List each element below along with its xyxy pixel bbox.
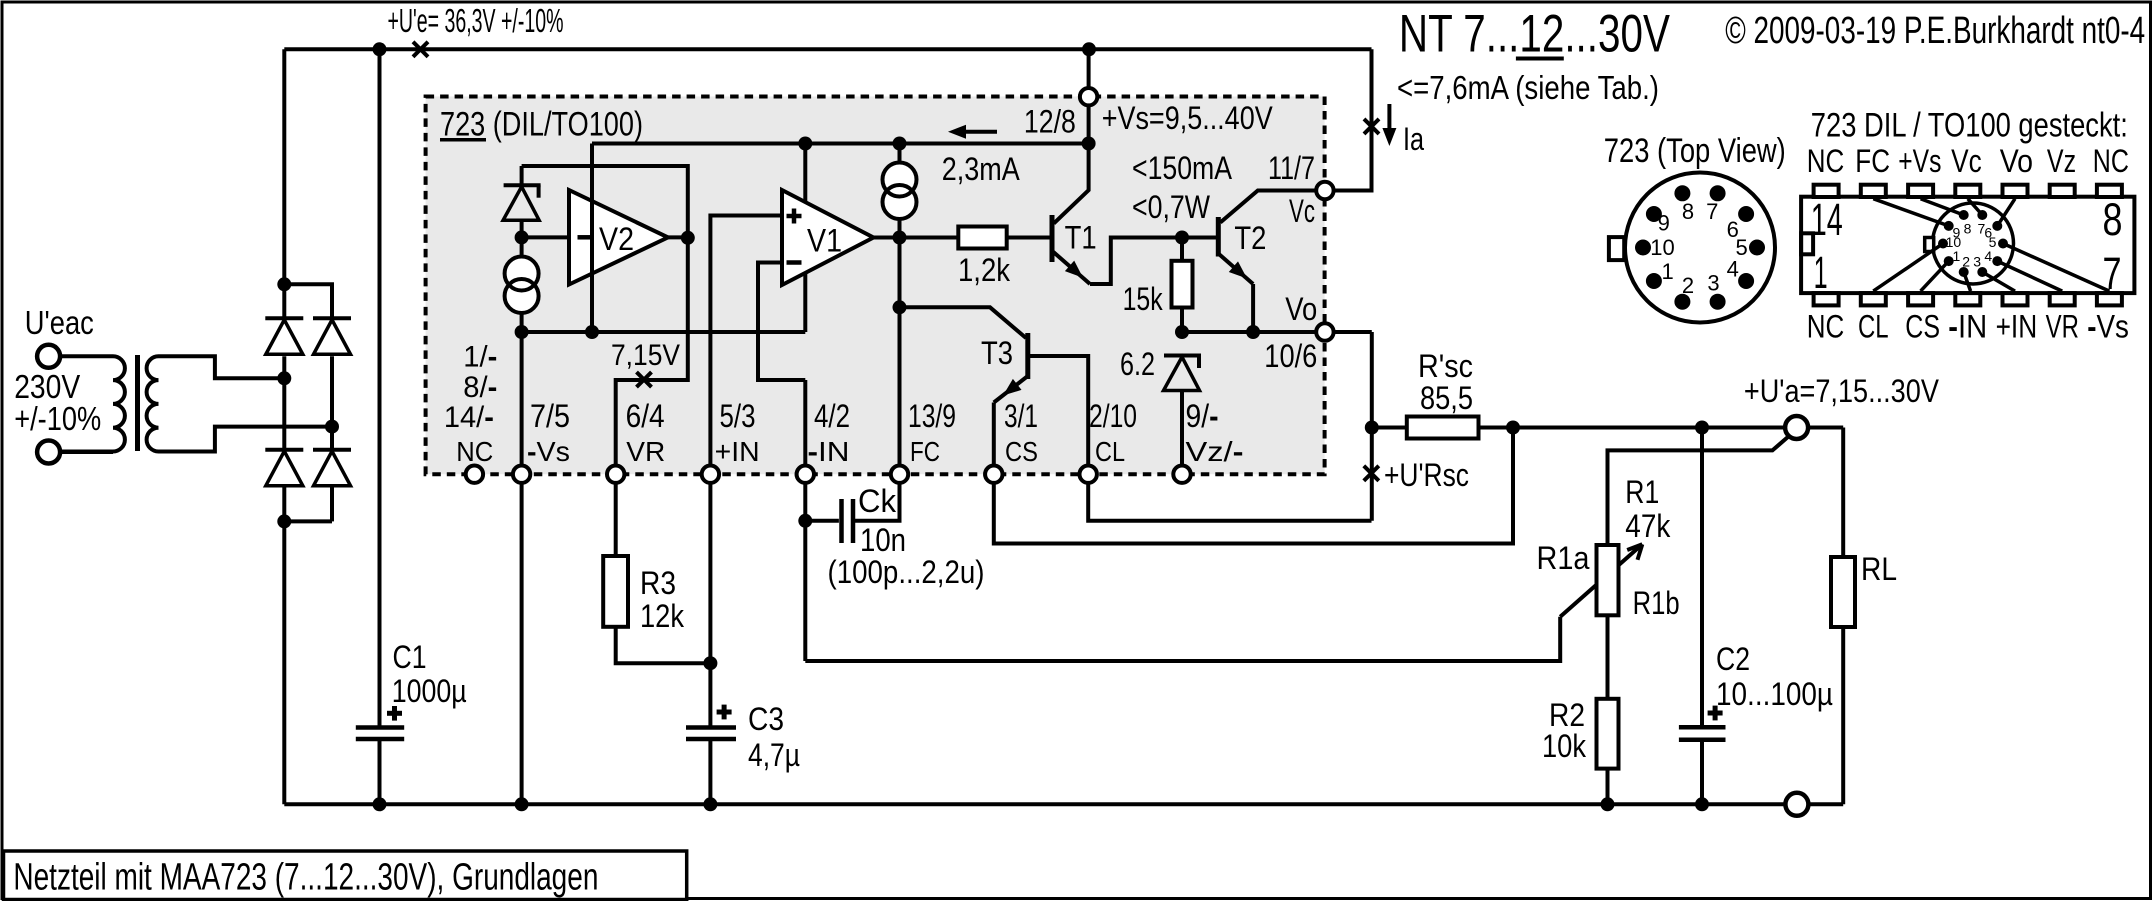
svg-text:U'eac: U'eac: [25, 304, 94, 341]
pin Vc (11/7): [1316, 182, 1333, 199]
label DIL bottom CL: [1858, 309, 1889, 345]
diode D1 bridge top-left: [265, 318, 303, 354]
svg-text:7: 7: [2103, 248, 2122, 299]
label pin 1/-: [463, 341, 497, 374]
node I2 top: [893, 137, 907, 151]
svg-text:(100p...2,2u): (100p...2,2u): [828, 554, 985, 590]
label +U'Rsc: [1384, 457, 1469, 493]
pin NC (1/8/14): [466, 466, 483, 483]
svg-text:2,3mA: 2,3mA: [942, 151, 1021, 187]
svg-text:FC: FC: [1855, 143, 1890, 179]
svg-text:12/8: 12/8: [1024, 104, 1076, 140]
transistor T1 emitter: [1052, 251, 1090, 284]
label R1b: [1633, 585, 1680, 621]
wire 12/8 pin to +Vs rail: [1087, 49, 1091, 143]
wire T2 collector to Vc pin: [1220, 191, 1325, 223]
svg-text:R'sc: R'sc: [1418, 348, 1473, 384]
wire T1 emitter to T2 base: [1090, 238, 1216, 285]
node V1 output: [893, 231, 907, 245]
wire R'sc left lead: [1372, 426, 1407, 430]
label 10...100µ: [1716, 676, 1833, 712]
node ground C2: [1695, 797, 1709, 811]
svg-text:3: 3: [1973, 254, 1981, 270]
label pin 3/1: [1004, 398, 1038, 434]
label 47k: [1625, 508, 1671, 544]
node ground R2: [1601, 797, 1615, 811]
resistor R2 10k: [1597, 699, 1619, 769]
transistor T1 base bar: [1050, 215, 1055, 262]
transistor T2 base bar: [1216, 217, 1221, 257]
wire 15k bottom to Vo row: [1180, 308, 1184, 333]
probe mark +U'e: [413, 42, 428, 57]
svg-text:+IN: +IN: [715, 436, 760, 467]
label Vo: [1285, 291, 1317, 327]
wire map CL->10: [1873, 244, 1943, 292]
wire +U'e rail right drop to Vc: [1325, 49, 1372, 190]
arrowhead R1a wiper: [1627, 544, 1642, 560]
label R'sc: [1418, 348, 1473, 384]
label 12/8: [1024, 104, 1076, 140]
svg-text:8/-: 8/-: [463, 371, 497, 404]
label DIL top FC: [1855, 143, 1890, 179]
label +U'a: [1744, 373, 1940, 409]
wire V1 bias current source chain: [898, 144, 902, 238]
svg-text:T3: T3: [981, 335, 1013, 371]
capacitor C2 plates: [1679, 727, 1726, 740]
wire V1 output to R 1,2k: [874, 236, 959, 240]
svg-text:FC: FC: [910, 436, 940, 467]
wire VR pin to R3: [614, 474, 618, 556]
svg-text:10k: 10k: [1542, 728, 1587, 764]
label DIL bottom CS: [1905, 309, 1940, 345]
svg-text:NC: NC: [1807, 143, 1845, 179]
wire R3 bottom link: [616, 627, 711, 663]
svg-text:723 (DIL/TO100): 723 (DIL/TO100): [440, 106, 643, 144]
svg-text:+U'e= 36,3V +/-10%: +U'e= 36,3V +/-10%: [388, 2, 564, 39]
svg-text:10...100µ: 10...100µ: [1716, 676, 1833, 712]
svg-text:2: 2: [1682, 273, 1694, 298]
svg-text:4: 4: [1984, 248, 1992, 264]
wire Vo drop to R'sc: [1370, 332, 1374, 428]
zener diode D5 reference (in IC): [503, 185, 540, 220]
svg-text:R3: R3: [640, 565, 676, 601]
node T2 emitter: [1246, 325, 1260, 339]
transistor T2 emitter: [1218, 254, 1253, 285]
svg-text:9/-: 9/-: [1186, 398, 1219, 434]
label 230V: [14, 368, 80, 405]
label <0,7W: [1132, 189, 1211, 225]
wire +U'a rail: [1479, 426, 1844, 430]
svg-text:1: 1: [1814, 247, 1828, 298]
svg-text:Netzteil mit MAA723 (7...12...: Netzteil mit MAA723 (7...12...30V), Grun…: [13, 857, 598, 899]
label +U'e voltage: [388, 2, 564, 39]
label pin -IN: [808, 436, 850, 467]
transistor T3 emitter: [994, 376, 1028, 403]
wire V2 supply feed: [590, 144, 594, 333]
svg-text:Vc: Vc: [1951, 143, 1982, 179]
diode D4 bridge bottom-right: [313, 450, 351, 486]
label 85,5: [1420, 380, 1473, 416]
wire bridge top to +U'e rail: [282, 49, 286, 284]
label DIL bottom NC: [1807, 309, 1845, 345]
op-amp V2: [569, 190, 668, 332]
label pin 5/3: [720, 398, 756, 434]
svg-text:1: 1: [1661, 259, 1673, 284]
svg-text:Ck: Ck: [858, 483, 897, 519]
wire FC pin drop: [898, 474, 902, 521]
label +/-10%: [14, 400, 101, 437]
wire 15k top link: [1180, 238, 1184, 261]
label pin 8/-: [463, 371, 497, 404]
wire Ck left lead: [805, 519, 839, 523]
svg-text:723 DIL / TO100 gesteckt:: 723 DIL / TO100 gesteckt:: [1811, 107, 2128, 145]
capacitor C1 polarity plus: [387, 706, 402, 721]
svg-text:14: 14: [1811, 194, 1843, 245]
wire map +Vs->8: [1921, 199, 1964, 215]
svg-text:47k: 47k: [1625, 508, 1671, 544]
probe mark Ia: [1364, 119, 1379, 134]
svg-text:C3: C3: [748, 701, 784, 737]
label 12k: [640, 598, 685, 634]
svg-text:NT 7...12...30V: NT 7...12...30V: [1399, 4, 1670, 63]
zener diode D6 6.2V (in IC): [1164, 356, 1202, 391]
wire V2 inverting input: [522, 235, 569, 239]
pin +IN (5/3): [702, 466, 719, 483]
svg-text:8: 8: [2103, 194, 2123, 245]
svg-text:CL: CL: [1858, 309, 1889, 345]
wire V1 noninverting input from +IN pin: [710, 216, 782, 475]
transistor T3 base bar: [1025, 333, 1030, 379]
node R3/C3: [703, 656, 717, 670]
node Ck tap: [798, 514, 812, 528]
wire C1 bottom to ground rail: [378, 739, 382, 804]
pin Vo (10/6): [1316, 323, 1333, 340]
wire -Vs pin chain: [520, 332, 524, 804]
svg-text:7,15V: 7,15V: [611, 339, 680, 372]
IC U1 MAA723 body (dashed box, DIL/TO100): [426, 97, 1325, 475]
svg-text:NC: NC: [2093, 143, 2129, 179]
wire +U'Rsc drop: [1370, 428, 1374, 521]
svg-text:-Vs: -Vs: [2087, 309, 2129, 345]
svg-text:R1b: R1b: [1633, 585, 1680, 621]
svg-text:6: 6: [1727, 217, 1739, 242]
node 12/8 top: [1082, 42, 1096, 56]
label 11/7: [1268, 150, 1315, 186]
label pin 6/4: [626, 398, 665, 434]
label U'eac: [25, 304, 94, 341]
transformer TR secondary winding: [147, 356, 159, 451]
wire C2 bottom to ground: [1700, 740, 1704, 805]
label R1: [1625, 474, 1659, 510]
svg-text:10n: 10n: [860, 522, 906, 558]
pin Vz (9/-): [1173, 466, 1190, 483]
wire RL bottom to ground: [1841, 627, 1845, 804]
label T3: [981, 335, 1013, 371]
label copyright: [1725, 10, 2145, 52]
svg-text:13/9: 13/9: [908, 398, 956, 434]
label DIL pin 7: [2103, 248, 2122, 299]
wire zener D1 cathode to VREF loop: [522, 166, 688, 474]
label DIL top NC: [1807, 143, 1845, 179]
svg-text:CL: CL: [1095, 436, 1125, 467]
wire map Vo->6: [1997, 199, 2015, 226]
wire map +IN->3: [1982, 272, 2015, 291]
label DIL pin 8: [2103, 194, 2123, 245]
svg-text:6/4: 6/4: [626, 398, 665, 434]
svg-text:4: 4: [1727, 257, 1739, 282]
label <150mA: [1132, 150, 1233, 186]
wire +IN pin to C3: [708, 474, 712, 727]
label pin VR: [626, 436, 665, 467]
svg-text:Ia: Ia: [1403, 121, 1424, 157]
label <=7,6mA: [1397, 69, 1659, 106]
label DIL top Vz: [2047, 143, 2076, 179]
probe mark +U'Rsc: [1364, 466, 1379, 481]
svg-text:2: 2: [1962, 254, 1970, 270]
label pin FC: [910, 436, 940, 467]
node -Vs rail left: [515, 325, 529, 339]
label DIL pin 1: [1814, 247, 1828, 298]
wire T3 emitter to CS pin: [992, 403, 996, 475]
potentiometer R1 47k body: [1597, 545, 1619, 615]
svg-text:10/6: 10/6: [1264, 338, 1317, 374]
wire R2 bottom to ground: [1606, 769, 1610, 805]
label C1: [393, 639, 427, 675]
capacitor C3 plates: [686, 728, 736, 740]
label DIL bottom +IN: [1996, 309, 2038, 345]
node R'sc left: [1365, 421, 1379, 435]
label T2: [1234, 220, 1266, 256]
svg-text:1,2k: 1,2k: [958, 252, 1011, 288]
wire primary top terminal: [60, 354, 113, 358]
svg-text:+Vs=9,5...40V: +Vs=9,5...40V: [1102, 100, 1274, 136]
svg-text:3: 3: [1707, 271, 1719, 296]
svg-text:15k: 15k: [1123, 281, 1164, 317]
wire -IN feedback to divider: [805, 617, 1560, 661]
label 10n: [860, 522, 906, 558]
label DIL top +Vs: [1898, 143, 1941, 179]
wire bridge left column lower: [282, 486, 286, 522]
label 15k: [1123, 281, 1164, 317]
svg-text:7/5: 7/5: [530, 398, 570, 434]
wire zener D1 anode chain to -Vs rail: [520, 220, 524, 332]
label R1a: [1537, 540, 1590, 576]
svg-text:8: 8: [1682, 199, 1694, 224]
wire secondary bottom to bridge: [159, 427, 333, 452]
svg-text:10: 10: [1650, 235, 1674, 260]
wire R1 to R2 link: [1606, 615, 1610, 699]
label 723 DIL / TO100 gesteckt:: [1811, 107, 2128, 145]
label T1: [1065, 220, 1097, 256]
svg-text:C1: C1: [393, 639, 427, 675]
wire C3 bottom to ground: [708, 739, 712, 804]
node ground C1: [373, 797, 387, 811]
probe mark 7,15V: [637, 372, 652, 387]
terminal U'eac top: [37, 345, 60, 368]
wire CS pin to R'sc sense: [994, 428, 1513, 544]
svg-text:-IN: -IN: [1948, 309, 1987, 345]
svg-text:8: 8: [1964, 220, 1972, 236]
label pin -Vs: [527, 436, 570, 467]
label pin 9/-: [1186, 398, 1219, 434]
label pin CL: [1095, 436, 1125, 467]
svg-text:3/1: 3/1: [1004, 398, 1038, 434]
svg-text:+U'Rsc: +U'Rsc: [1384, 457, 1469, 493]
node bridge AC right: [325, 420, 339, 434]
label DIL top Vo: [2000, 143, 2033, 179]
svg-text:Vo: Vo: [1285, 291, 1317, 327]
transformer TR core: [135, 355, 140, 451]
label 723 (DIL/TO100): [440, 106, 643, 144]
wire ground rail right of terminal: [1808, 802, 1843, 806]
svg-text:Vc: Vc: [1289, 193, 1315, 229]
svg-text:T2: T2: [1234, 220, 1266, 256]
wire T2 emitter drop: [1251, 284, 1255, 332]
svg-text:12k: 12k: [640, 598, 685, 634]
capacitor C2 polarity plus: [1708, 706, 1723, 721]
arrow 2,3mA current direction: [948, 125, 997, 139]
svg-text:R1a: R1a: [1537, 540, 1590, 576]
label RL: [1861, 551, 1897, 587]
wire +U'e down to C1: [378, 49, 382, 727]
pin VR (6/4): [607, 466, 624, 483]
capacitor C1 plates: [356, 728, 404, 740]
diode D3 bridge bottom-left: [265, 450, 303, 486]
wire R1a wiper diagonal: [1560, 544, 1642, 616]
node +U'e junction: [373, 42, 387, 56]
svg-text:+IN: +IN: [1996, 309, 2038, 345]
svg-text:NC: NC: [1807, 309, 1845, 345]
svg-text:2/10: 2/10: [1089, 398, 1137, 434]
resistor R6 15k (in IC): [1172, 261, 1193, 308]
node R'sc right: [1506, 421, 1520, 435]
label pin Vz/-: [1186, 436, 1244, 467]
node T1 collector: [1082, 137, 1096, 151]
wire Vo row: [1182, 330, 1372, 334]
node bridge AC left: [277, 371, 291, 385]
wire bridge right column lower: [330, 486, 334, 522]
wire R1 top feed: [1608, 436, 1789, 545]
label C3: [748, 701, 784, 737]
label 2,3mA: [942, 151, 1021, 187]
label 1,2k: [958, 252, 1011, 288]
svg-text:5/3: 5/3: [720, 398, 756, 434]
svg-text:85,5: 85,5: [1420, 380, 1473, 416]
node T2 base: [1175, 231, 1189, 245]
label DIL bottom -Vs: [2087, 309, 2129, 345]
wire T3 collector link: [900, 307, 1027, 338]
wire V1 supply feed: [803, 144, 807, 333]
svg-text:RL: RL: [1861, 551, 1897, 587]
svg-text:C2: C2: [1716, 641, 1750, 677]
svg-text:V2: V2: [599, 221, 634, 257]
svg-text:723 (Top View): 723 (Top View): [1604, 132, 1786, 170]
wire bridge left column middle: [282, 356, 286, 449]
wire map -IN->2: [1964, 272, 1971, 291]
pin CL (2/10): [1080, 466, 1097, 483]
wire +U'e top rail: [284, 47, 1371, 51]
label 6.2: [1120, 346, 1155, 382]
capacitor C3 polarity plus: [717, 705, 732, 720]
svg-text:4,7µ: 4,7µ: [748, 737, 800, 773]
pin +Vs (12/8): [1080, 88, 1097, 105]
wire bridge top link: [284, 284, 332, 318]
label Vc: [1289, 193, 1315, 229]
node V1 supply top: [798, 137, 812, 151]
svg-text:<150mA: <150mA: [1132, 150, 1233, 186]
node bridge top: [277, 277, 291, 291]
connector 723 Top View package: [1609, 173, 1775, 323]
label pin NC: [456, 436, 493, 467]
wire RL top feed: [1841, 428, 1845, 558]
svg-text:<=7,6mA (siehe Tab.): <=7,6mA (siehe Tab.): [1397, 69, 1659, 106]
diode D2 bridge top-right: [313, 318, 351, 354]
wire T3 base to CL pin: [1030, 356, 1372, 521]
svg-text:+U'a=7,15...30V: +U'a=7,15...30V: [1744, 373, 1940, 409]
svg-text:+/-10%: +/-10%: [14, 400, 101, 437]
svg-text:CS: CS: [1005, 436, 1038, 467]
svg-text:14/-: 14/-: [444, 401, 494, 434]
svg-text:V1: V1: [807, 223, 842, 259]
pin FC (13/9): [891, 466, 908, 483]
node V2 supply: [585, 325, 599, 339]
wire map -Vs->5: [2003, 244, 2109, 292]
title block: [4, 851, 687, 900]
node V2 output: [681, 231, 695, 245]
connector TO100 overlay circle: [1925, 203, 2014, 284]
pin CS (3/1): [985, 466, 1002, 483]
svg-text:R1: R1: [1625, 474, 1659, 510]
label pin 13/9: [908, 398, 956, 434]
wire R 1,2k to T1 base: [1007, 236, 1050, 240]
wire primary bottom terminal: [60, 450, 113, 454]
arrow Ia current direction: [1382, 104, 1396, 146]
label pin 14/-: [444, 401, 494, 434]
svg-text:T1: T1: [1065, 220, 1097, 256]
current source I1 (V2 bias): [505, 257, 539, 314]
wire ground rail: [284, 802, 1785, 806]
node 15k bottom: [1175, 325, 1189, 339]
wire internal +Vs rail: [592, 142, 1089, 146]
wire bridge bottom link: [284, 519, 332, 523]
terminal U'eac bottom: [37, 441, 60, 464]
wire bridge right column middle: [330, 356, 334, 449]
label 1000µ: [392, 673, 467, 709]
svg-text:CS: CS: [1905, 309, 1940, 345]
label 723 (Top View): [1604, 132, 1786, 170]
svg-text:<0,7W: <0,7W: [1132, 189, 1211, 225]
svg-text:© 2009-03-19 P.E.Burkhardt nt0: © 2009-03-19 P.E.Burkhardt nt0-4: [1725, 10, 2145, 52]
wire bridge bottom to ground rail: [282, 521, 286, 804]
wire map CS->1: [1921, 261, 1949, 291]
svg-text:1/-: 1/-: [463, 341, 497, 374]
node ground -Vs: [515, 797, 529, 811]
label Ia: [1403, 121, 1424, 157]
wire C2 top feed: [1700, 428, 1704, 728]
label Ck: [858, 483, 897, 519]
wire V1 output down to FC pin and Ck: [853, 238, 900, 521]
label DIL pin 14: [1811, 194, 1843, 245]
svg-text:Vz: Vz: [2047, 143, 2076, 179]
label R3: [640, 565, 676, 601]
label R2: [1549, 697, 1585, 733]
label 4,7µ: [748, 737, 800, 773]
wire bridge left column upper: [282, 284, 286, 318]
node zener D5 anode: [515, 230, 529, 244]
resistor R'sc 85,5: [1407, 417, 1479, 439]
connector DIL-14 package outline: [1801, 185, 2134, 306]
svg-text:1000µ: 1000µ: [392, 673, 467, 709]
